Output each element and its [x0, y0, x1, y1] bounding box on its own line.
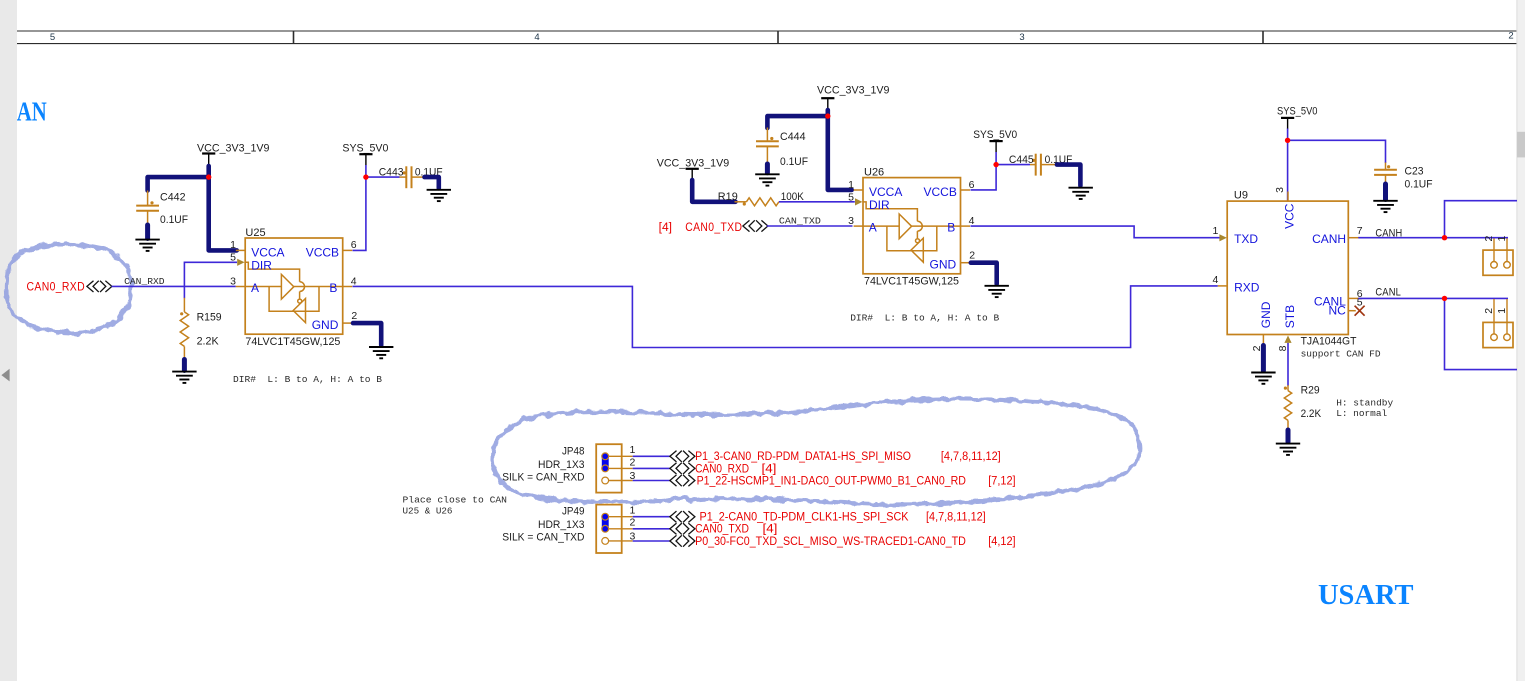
svg-text:2: 2 — [1508, 31, 1513, 42]
svg-text:4: 4 — [969, 215, 975, 227]
wire CAN0_RXD to U25 pin3 — [112, 285, 236, 287]
thick gnd stub C444 — [765, 164, 770, 173]
ground R159 — [172, 372, 196, 383]
C443 origin dot — [403, 171, 406, 174]
svg-text:2: 2 — [630, 517, 636, 529]
capacitor C444 — [756, 128, 779, 164]
wire CANH from U9 pin7 — [1358, 237, 1508, 239]
svg-text:CAN0_RXD: CAN0_RXD — [695, 463, 749, 475]
ground C445 — [1069, 188, 1093, 199]
ground C442 — [135, 240, 159, 251]
R29 origin dot — [1284, 387, 1287, 390]
thick gnd stub C23 — [1383, 184, 1388, 200]
wire SYS_5V0 junction down to U26 pin6 — [971, 165, 997, 190]
capacitor C443 — [400, 166, 425, 188]
wire JP49 pin1 to port — [633, 516, 670, 518]
svg-text:2: 2 — [969, 250, 975, 262]
svg-text:TXD: TXD — [1234, 232, 1258, 246]
sheet border ruler top — [17, 31, 1517, 44]
hand-drawn sketch circle around CAN0_RXD — [6, 244, 131, 333]
svg-text:R19: R19 — [718, 191, 738, 203]
wire U26 B to U9 TXD — [971, 226, 1221, 238]
svg-text:1: 1 — [230, 239, 236, 251]
svg-text:2.2K: 2.2K — [1301, 408, 1322, 420]
resistor R29 — [1284, 385, 1291, 429]
svg-text:4: 4 — [1213, 274, 1219, 286]
svg-text:TJA1044GT: TJA1044GT — [1301, 335, 1357, 347]
thick gnd stub U9 pin2 — [1261, 346, 1266, 371]
svg-text:CAN_RXD: CAN_RXD — [124, 276, 165, 287]
svg-text:3: 3 — [1274, 187, 1286, 193]
left collapse arrow — [1, 369, 9, 382]
svg-text:DIR# L: B to A, H: A to B: DIR# L: B to A, H: A to B — [850, 312, 999, 323]
svg-text:U9: U9 — [1234, 189, 1248, 201]
resistor R19 — [735, 198, 779, 206]
connector JP48 HDR_1X3 — [596, 444, 633, 492]
svg-text:6: 6 — [351, 239, 357, 251]
hand-drawn sketch loop around JP48/JP49 nets — [493, 399, 1140, 505]
junction dot CANL — [1442, 296, 1447, 301]
ground U26 pin2 — [985, 286, 1009, 297]
svg-text:C443: C443 — [379, 166, 404, 178]
port symbol JP48 pin3 — [670, 475, 695, 485]
svg-text:Place close to CAN: Place close to CAN — [403, 495, 508, 506]
thick gnd link U26 pin2 — [971, 263, 997, 284]
svg-text:5: 5 — [50, 32, 55, 43]
junction dot SYS_5V0 (U25) — [363, 174, 368, 179]
junction dot SYS_5V0 (U9) — [1285, 138, 1290, 143]
port symbol JP48 pin2 — [670, 463, 695, 473]
IC U25 74LVC1T45GW — [236, 238, 352, 334]
power bar SYS_5V0 (U26) — [990, 141, 1003, 152]
power bar VCC_3V3_1V9 (R19) — [686, 169, 699, 180]
U9 pin1 TXD arrow — [1219, 234, 1226, 241]
thick gnd stub C442 — [145, 225, 150, 239]
svg-text:74LVC1T45GW,125: 74LVC1T45GW,125 — [864, 275, 959, 287]
thick gnd stub R29 — [1286, 430, 1291, 442]
svg-text:C23: C23 — [1405, 165, 1424, 177]
wire junction to C443 — [366, 176, 400, 178]
IC U9 TJA1044GT — [1218, 192, 1359, 346]
svg-text:RXD: RXD — [1234, 280, 1260, 294]
C442 origin dot — [150, 201, 153, 204]
wire branch to U25 DIR — [184, 262, 237, 286]
svg-text:4: 4 — [534, 32, 539, 43]
wire JP49 pin2 to port — [633, 528, 670, 530]
svg-text:VCC_3V3_1V9: VCC_3V3_1V9 — [817, 85, 890, 97]
svg-text:USART: USART — [1318, 580, 1414, 611]
wire JP48 pin3 to port — [633, 480, 670, 482]
wire SYS_5V0 junction down to U25 pin6 — [353, 177, 366, 250]
svg-text:HDR_1X3: HDR_1X3 — [538, 519, 585, 531]
C444 origin dot — [770, 137, 773, 140]
power bar VCC_3V3_1V9 (U26 top) — [821, 98, 834, 109]
svg-text:AN: AN — [17, 96, 47, 126]
wire U25 B to U9 RXD — [353, 286, 1218, 348]
svg-text:C445: C445 — [1009, 154, 1034, 166]
svg-text:P1_2-CAN0_TD-PDM_CLK1-HS_SPI_S: P1_2-CAN0_TD-PDM_CLK1-HS_SPI_SCK — [700, 512, 909, 524]
svg-text:5: 5 — [848, 191, 854, 203]
IC U26 74LVC1T45GW — [854, 178, 970, 274]
svg-text:SILK = CAN_TXD: SILK = CAN_TXD — [502, 532, 584, 544]
svg-text:VCC_3V3_1V9: VCC_3V3_1V9 — [657, 157, 730, 169]
svg-text:HDR_1X3: HDR_1X3 — [538, 459, 585, 471]
svg-text:CANL: CANL — [1375, 286, 1401, 298]
svg-text:5: 5 — [230, 252, 236, 264]
junction dot SYS_5V0 (U26) — [993, 162, 998, 167]
junction dot VCC_3V3_1V9 — [206, 174, 211, 179]
junction dot VCC_3V3_1V9 (U26) — [825, 113, 830, 118]
power bar SYS_5V0 (U9) — [1281, 118, 1294, 129]
connector CANL (2-pin) — [1483, 299, 1513, 348]
wire junction to C445 — [996, 164, 1030, 166]
svg-text:7: 7 — [1357, 225, 1363, 237]
svg-text:1: 1 — [1213, 225, 1219, 237]
svg-text:C442: C442 — [160, 191, 186, 203]
svg-text:U26: U26 — [864, 166, 884, 178]
svg-text:2: 2 — [351, 310, 357, 322]
ground U25 pin2 — [369, 347, 393, 358]
port symbol JP49 pin2 — [670, 524, 695, 534]
svg-text:1: 1 — [630, 444, 636, 456]
svg-text:6: 6 — [969, 179, 975, 191]
svg-text:H: standby: H: standby — [1336, 397, 1393, 408]
power bar VCC_3V3_1V9 (U25) — [202, 154, 215, 165]
svg-text:3: 3 — [230, 275, 236, 287]
svg-text:U25 & U26: U25 & U26 — [403, 506, 453, 517]
right scrollbar track — [1517, 0, 1525, 681]
R159 origin dot — [180, 312, 183, 315]
thick gnd link C445 — [1057, 165, 1081, 186]
svg-text:[4]: [4] — [659, 222, 672, 234]
thick gnd link U25 pin2 — [353, 323, 381, 345]
svg-text:1: 1 — [1496, 308, 1508, 314]
capacitor C445 — [1030, 154, 1057, 176]
svg-text:JP49: JP49 — [562, 506, 585, 518]
svg-text:2.2K: 2.2K — [197, 336, 220, 348]
ground R29 — [1276, 444, 1300, 455]
connector JP49 HDR_1X3 — [596, 505, 633, 553]
wire JP48 pin1 to port — [633, 455, 670, 457]
thick gnd stub R159 — [182, 360, 187, 371]
svg-text:CANH: CANH — [1312, 232, 1346, 246]
svg-text:3: 3 — [848, 215, 854, 227]
thick gnd link C443 — [425, 177, 439, 188]
svg-text:C444: C444 — [780, 131, 806, 143]
svg-text:1: 1 — [630, 505, 636, 517]
svg-text:STB: STB — [1283, 305, 1297, 328]
port symbol JP48 pin1 — [670, 451, 695, 461]
ground U9 pin2 — [1251, 373, 1275, 384]
svg-text:0.1UF: 0.1UF — [1405, 178, 1433, 190]
capacitor C442 — [136, 191, 159, 225]
svg-text:4: 4 — [351, 275, 357, 287]
svg-text:NC: NC — [1329, 304, 1347, 318]
wire JP48 pin2 to port — [633, 467, 670, 469]
thick power wire VCC_3V3_1V9 to U25 pin1 — [148, 166, 237, 250]
svg-text:2: 2 — [630, 456, 636, 468]
port symbol JP49 pin3 — [670, 536, 695, 546]
svg-text:support CAN FD: support CAN FD — [1301, 348, 1381, 359]
svg-text:1: 1 — [848, 179, 854, 191]
wire CANH up branch to top rail — [1445, 201, 1518, 238]
wire CAN0_TXD to U26 pin3 — [767, 225, 853, 227]
C23 origin dot — [1387, 165, 1390, 168]
svg-text:DIR# L: B to A, H: A to B: DIR# L: B to A, H: A to B — [233, 374, 382, 385]
thick power wire to R19 — [692, 180, 735, 202]
svg-text:R159: R159 — [197, 311, 222, 323]
svg-text:SYS_5V0: SYS_5V0 — [342, 143, 388, 155]
U9 pin8 STB arrow — [1284, 336, 1291, 343]
svg-text:[7,12]: [7,12] — [988, 475, 1015, 487]
C445 origin dot — [1032, 159, 1035, 162]
ground C23 — [1373, 201, 1397, 212]
power bar SYS_5V0 (U25) — [359, 154, 372, 165]
svg-text:CAN0_RXD: CAN0_RXD — [27, 282, 86, 294]
svg-text:SYS_5V0: SYS_5V0 — [973, 129, 1017, 141]
svg-text:[4]: [4] — [762, 463, 777, 475]
svg-text:SILK = CAN_RXD: SILK = CAN_RXD — [502, 471, 584, 483]
right scrollbar thumb — [1517, 132, 1525, 158]
wire JP49 pin3 to port — [633, 540, 670, 542]
wire SYS_5V0 down to U9 VCC — [1287, 129, 1289, 202]
svg-text:0.1UF: 0.1UF — [780, 156, 808, 168]
svg-text:CAN0_TXD: CAN0_TXD — [695, 524, 749, 536]
wire junction to C23 — [1288, 140, 1386, 163]
svg-text:GND: GND — [1259, 301, 1273, 328]
svg-text:VCC: VCC — [1283, 203, 1297, 229]
resistor R159 — [180, 298, 188, 358]
svg-text:SYS_5V0: SYS_5V0 — [1277, 105, 1318, 117]
svg-text:U25: U25 — [245, 227, 265, 239]
svg-text:L: normal: L: normal — [1336, 408, 1387, 419]
svg-text:JP48: JP48 — [562, 445, 585, 457]
wire CANL down branch to bottom rail — [1445, 298, 1518, 369]
svg-text:CAN0_TXD: CAN0_TXD — [685, 222, 742, 234]
svg-text:8: 8 — [1277, 345, 1289, 351]
left panel gray strip — [0, 0, 17, 681]
U9 no-connect X pin5 — [1355, 306, 1365, 316]
port symbol JP49 pin1 — [670, 512, 695, 522]
svg-text:[4]: [4] — [763, 524, 778, 536]
svg-text:3: 3 — [1019, 32, 1024, 43]
connector CANH (2-pin) — [1483, 238, 1513, 275]
ground C443 — [427, 190, 451, 201]
svg-text:[4,7,8,11,12]: [4,7,8,11,12] — [926, 512, 986, 524]
ground C444 — [755, 174, 779, 185]
svg-text:1: 1 — [1496, 236, 1508, 242]
R19 origin dot — [743, 202, 746, 205]
wire R19 to U26 DIR — [779, 201, 855, 203]
capacitor C23 — [1374, 163, 1397, 184]
svg-text:2: 2 — [1483, 236, 1495, 242]
junction dot CANH — [1442, 235, 1447, 240]
svg-text:2: 2 — [1483, 308, 1495, 314]
svg-text:P0_30-FC0_TXD_SCL_MISO_WS-TRAC: P0_30-FC0_TXD_SCL_MISO_WS-TRACED1-CAN0_T… — [695, 536, 966, 548]
svg-text:[4,7,8,11,12]: [4,7,8,11,12] — [941, 451, 1001, 463]
wire branch to R159 — [183, 286, 185, 298]
svg-text:CANH: CANH — [1375, 228, 1402, 240]
svg-text:[4,12]: [4,12] — [988, 536, 1015, 548]
svg-text:P1_3-CAN0_RD-PDM_DATA1-HS_SPI_: P1_3-CAN0_RD-PDM_DATA1-HS_SPI_MISO — [695, 451, 911, 463]
port symbol CAN0_RXD — [87, 281, 112, 291]
svg-text:P1_22-HSCMP1_IN1-DAC0_OUT-PWM0: P1_22-HSCMP1_IN1-DAC0_OUT-PWM0_B1_CAN0_R… — [697, 475, 966, 487]
wire SYS_5V0 down to junction — [995, 152, 997, 165]
port symbol CAN0_TXD — [743, 221, 768, 231]
svg-text:0.1UF: 0.1UF — [160, 214, 188, 226]
thick power wire VCC_3V3_1V9 to U26 pin1 — [767, 110, 851, 190]
svg-text:CAN_TXD: CAN_TXD — [779, 215, 821, 226]
svg-text:R29: R29 — [1301, 384, 1320, 396]
wire CANL from U9 pin6 — [1358, 297, 1508, 299]
wire U9 STB to R29 — [1287, 343, 1289, 386]
wire SYS_5V0 down to junction — [365, 165, 367, 177]
svg-text:74LVC1T45GW,125: 74LVC1T45GW,125 — [245, 336, 340, 348]
